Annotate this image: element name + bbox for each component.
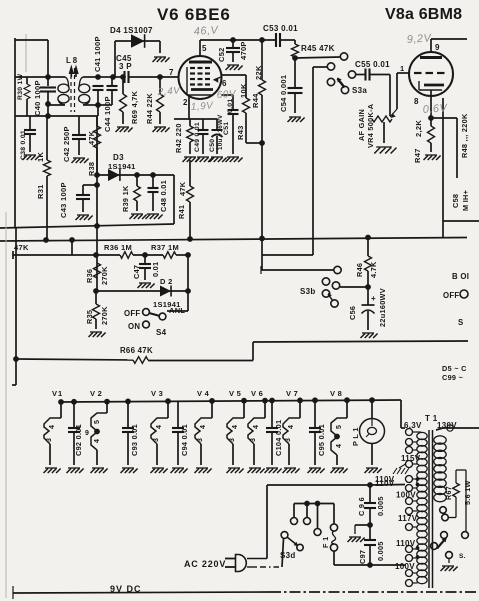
svg-text:3: 3 — [285, 438, 292, 442]
svg-text:V 6: V 6 — [251, 389, 263, 398]
svg-text:1,9V: 1,9V — [190, 100, 214, 113]
svg-text:8: 8 — [414, 97, 419, 106]
svg-text:C38 0.01: C38 0.01 — [20, 130, 27, 160]
svg-text:R39 1K: R39 1K — [121, 185, 130, 212]
svg-text:C41 100P: C41 100P — [93, 36, 102, 72]
svg-text:C43 100P: C43 100P — [59, 182, 68, 218]
svg-text:C95 0.01: C95 0.01 — [317, 424, 326, 456]
svg-text:D4 1S1007: D4 1S1007 — [110, 26, 153, 35]
svg-text:3 P: 3 P — [119, 62, 132, 71]
svg-text:C55 0.01: C55 0.01 — [355, 60, 390, 69]
svg-text:470P: 470P — [239, 41, 248, 60]
svg-text:3: 3 — [153, 438, 160, 442]
svg-text:C104 0.01: C104 0.01 — [274, 420, 283, 456]
svg-text:C40 100P: C40 100P — [33, 80, 42, 116]
svg-text:ON: ON — [128, 322, 140, 331]
svg-text:R44: R44 — [251, 93, 260, 108]
svg-text:100V: 100V — [395, 562, 415, 571]
svg-text:C 9 6: C 9 6 — [357, 497, 366, 516]
svg-text:3: 3 — [197, 438, 204, 442]
svg-text:0.01: 0.01 — [151, 262, 160, 277]
svg-text:V 4: V 4 — [197, 389, 210, 398]
svg-text:100V: 100V — [396, 491, 416, 500]
svg-text:M IH+: M IH+ — [461, 190, 470, 211]
svg-text:R37 1M: R37 1M — [151, 243, 179, 252]
svg-text:V6 6BE6: V6 6BE6 — [157, 5, 231, 24]
svg-text:22K: 22K — [254, 65, 263, 80]
svg-text:C49 0.01: C49 0.01 — [194, 122, 201, 152]
svg-text:5: 5 — [94, 420, 101, 424]
svg-text:R69 4,7K: R69 4,7K — [130, 90, 139, 124]
svg-text:C54 0.001: C54 0.001 — [279, 75, 288, 112]
svg-text:47K: 47K — [87, 130, 96, 145]
svg-text:C97: C97 — [358, 550, 367, 564]
svg-text:S3b: S3b — [300, 287, 316, 296]
svg-text:5.6 1W: 5.6 1W — [463, 480, 472, 505]
svg-text:C93 0.01: C93 0.01 — [130, 424, 139, 456]
svg-text:60V: 60V — [216, 89, 237, 101]
svg-text:C44 100P: C44 100P — [103, 96, 112, 132]
svg-text:C56: C56 — [348, 306, 357, 320]
svg-text:4: 4 — [49, 425, 56, 429]
svg-text:ANL: ANL — [169, 306, 185, 315]
svg-text:3: 3 — [250, 438, 257, 442]
svg-text:R46: R46 — [355, 263, 364, 277]
svg-text:4: 4 — [200, 425, 207, 429]
svg-text:1: 1 — [400, 64, 404, 73]
svg-text:F 1: F 1 — [321, 537, 330, 548]
svg-text:9,2V: 9,2V — [406, 32, 433, 46]
svg-text:46,V: 46,V — [193, 24, 220, 38]
svg-text:S.: S. — [459, 553, 466, 560]
svg-text:V 8: V 8 — [330, 389, 342, 398]
svg-text:R67: R67 — [444, 486, 453, 500]
svg-text:OFF: OFF — [443, 291, 460, 300]
svg-text:110V: 110V — [375, 475, 395, 484]
svg-text:R47: R47 — [413, 148, 422, 163]
svg-text:4: 4 — [156, 425, 163, 429]
svg-text:R45 47K: R45 47K — [301, 44, 335, 53]
svg-text:5: 5 — [336, 425, 343, 429]
svg-text:0,6V: 0,6V — [422, 102, 449, 116]
svg-text:115V: 115V — [401, 454, 421, 463]
svg-text:10K: 10K — [239, 83, 248, 98]
svg-text:47K: 47K — [178, 181, 187, 196]
svg-text:4: 4 — [94, 439, 101, 443]
svg-text:22u160WV: 22u160WV — [378, 288, 387, 327]
svg-text:B OI: B OI — [452, 272, 469, 281]
svg-text:C48 0.01: C48 0.01 — [159, 180, 168, 212]
svg-text:V 2: V 2 — [90, 389, 102, 398]
svg-text:V 3: V 3 — [151, 389, 163, 398]
svg-text:S: S — [458, 318, 464, 327]
svg-text:V1: V1 — [52, 389, 63, 398]
svg-text:6: 6 — [222, 79, 227, 88]
svg-text:2: 2 — [183, 98, 188, 107]
svg-text:4: 4 — [253, 425, 260, 429]
svg-text:P L 1: P L 1 — [351, 427, 360, 446]
svg-text:270K: 270K — [100, 266, 109, 285]
svg-text:3: 3 — [229, 438, 236, 442]
svg-text:V 7: V 7 — [286, 389, 298, 398]
svg-text:3: 3 — [46, 438, 53, 442]
svg-text:C42 250P: C42 250P — [62, 126, 71, 162]
svg-text:C50: C50 — [209, 139, 216, 152]
svg-text:D5 ~ C: D5 ~ C — [442, 364, 467, 373]
svg-text:270K: 270K — [100, 306, 109, 325]
svg-text:OFF: OFF — [124, 309, 141, 318]
svg-text:0.01: 0.01 — [227, 99, 234, 113]
svg-text:117V: 117V — [398, 514, 418, 523]
svg-text:C51: C51 — [223, 122, 230, 135]
svg-text:1S1941: 1S1941 — [108, 162, 136, 171]
svg-text:S3a: S3a — [352, 86, 367, 95]
svg-text:V8a 6BM8: V8a 6BM8 — [385, 6, 462, 23]
svg-text:R31: R31 — [36, 184, 45, 199]
svg-text:2,2K: 2,2K — [414, 120, 423, 137]
svg-text:VR4 500K-A: VR4 500K-A — [366, 103, 375, 148]
svg-text:T 1: T 1 — [425, 414, 438, 423]
svg-text:C92 0.01: C92 0.01 — [74, 424, 83, 456]
svg-text:R48 ,,, 220K: R48 ,,, 220K — [460, 113, 469, 158]
svg-text:0.005: 0.005 — [376, 496, 385, 516]
svg-text:R42 220: R42 220 — [174, 123, 183, 153]
svg-text:C53 0.01: C53 0.01 — [263, 24, 298, 33]
svg-text:S4: S4 — [156, 328, 167, 337]
svg-text:1K: 1K — [36, 152, 45, 162]
svg-text:4.7K: 4.7K — [369, 261, 378, 278]
svg-text:C47: C47 — [132, 265, 141, 279]
svg-text:R43: R43 — [236, 125, 245, 140]
svg-text:7: 7 — [169, 68, 174, 77]
svg-text:AF GAIN: AF GAIN — [357, 109, 366, 141]
svg-text:AC 220V: AC 220V — [184, 559, 226, 569]
svg-text:4: 4 — [288, 425, 295, 429]
svg-text:R36: R36 — [85, 269, 94, 283]
svg-text:D3: D3 — [113, 153, 124, 162]
svg-text:L8: L8 — [66, 56, 79, 65]
svg-text:R30 1W: R30 1W — [17, 73, 24, 100]
svg-text:C52: C52 — [217, 47, 226, 62]
svg-text:R41: R41 — [177, 205, 186, 219]
svg-text:9: 9 — [85, 430, 89, 437]
svg-text:V 5: V 5 — [229, 389, 241, 398]
svg-text:D 2: D 2 — [160, 277, 173, 286]
svg-text:2,4V: 2,4V — [156, 85, 181, 98]
svg-text:4: 4 — [336, 444, 343, 448]
svg-text:R35: R35 — [85, 310, 94, 324]
svg-text:R66 47K: R66 47K — [120, 346, 153, 355]
svg-text:C99 ~: C99 ~ — [442, 373, 463, 382]
svg-text:4: 4 — [232, 425, 239, 429]
svg-text:C94 0.01: C94 0.01 — [180, 424, 189, 456]
svg-text:5: 5 — [202, 44, 207, 53]
svg-text:9: 9 — [435, 43, 440, 52]
svg-text:R36 1M: R36 1M — [104, 243, 132, 252]
svg-text:110V: 110V — [396, 539, 416, 548]
svg-text:C58: C58 — [451, 194, 460, 208]
svg-text:R44 22K: R44 22K — [145, 93, 154, 124]
svg-text:0.005: 0.005 — [376, 541, 385, 561]
svg-text:+: + — [371, 294, 376, 303]
